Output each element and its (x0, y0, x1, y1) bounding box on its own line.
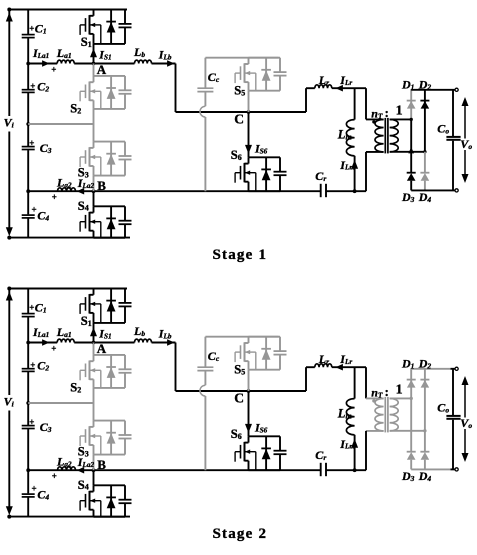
svg-text:+: + (32, 205, 37, 215)
svg-text:+: + (29, 302, 34, 312)
svg-text:Stage 2: Stage 2 (213, 526, 268, 542)
svg-text:+: + (32, 484, 37, 494)
svg-text:+: + (51, 344, 56, 354)
svg-text:A: A (97, 62, 107, 77)
svg-text:+: + (29, 23, 34, 33)
svg-text:+: + (30, 360, 35, 370)
svg-text:+: + (29, 138, 34, 148)
svg-text::: : (385, 106, 389, 120)
svg-text:+: + (52, 192, 57, 202)
svg-text:+: + (30, 81, 35, 91)
svg-text:B: B (97, 457, 106, 472)
svg-text:C: C (234, 111, 244, 126)
svg-text:+: + (29, 417, 34, 427)
svg-text:C: C (234, 390, 244, 405)
svg-text:+: + (52, 471, 57, 481)
svg-text:A: A (97, 341, 107, 356)
svg-text:Stage 1: Stage 1 (213, 247, 268, 263)
svg-text:1: 1 (396, 383, 403, 398)
svg-text:+: + (51, 65, 56, 75)
svg-text::: : (385, 385, 389, 399)
svg-text:B: B (97, 178, 106, 193)
svg-text:1: 1 (396, 104, 403, 119)
